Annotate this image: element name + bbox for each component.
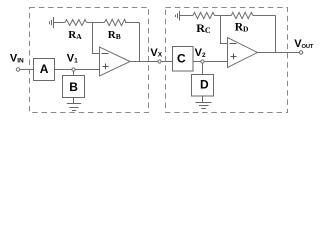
svg-text:VIN: VIN — [10, 53, 24, 65]
svg-text:RD: RD — [235, 21, 249, 33]
block D — [192, 75, 214, 97]
svg-text:RC: RC — [196, 21, 211, 35]
feedback wire down to output of U2 — [275, 16, 277, 53]
terminal VIN — [16, 68, 19, 71]
svg-text:C: C — [177, 52, 186, 66]
wire node X down to inverting input of U1 — [93, 23, 100, 54]
svg-text:RA: RA — [68, 29, 82, 41]
svg-text:B: B — [69, 80, 78, 94]
wire RB to feedback corner — [125, 22, 140, 24]
wire node down to inverting input of U2 — [221, 16, 228, 44]
block B — [63, 76, 85, 98]
terminal VOUT — [299, 51, 302, 54]
output wire U1 to VX — [130, 61, 158, 63]
svg-text:VX: VX — [150, 47, 162, 59]
right dashed subcircuit box — [166, 8, 288, 113]
stub V2 down to block D — [202, 63, 204, 74]
stub V1 down to block B — [73, 71, 75, 75]
wire C to op-amp + input through node V2 — [193, 61, 228, 63]
wire RC to RD through node — [215, 15, 232, 17]
wire ground to RC — [180, 15, 193, 17]
svg-text:V2: V2 — [195, 47, 206, 59]
wire A to op-amp + input through node V1 — [55, 69, 100, 71]
terminal VX — [158, 60, 161, 63]
ground under B — [67, 98, 81, 111]
feedback wire down to output of U1 — [139, 23, 141, 62]
svg-text:RB: RB — [108, 29, 121, 41]
svg-text:A: A — [40, 62, 49, 76]
block C — [173, 47, 194, 72]
op-amp U1 — [100, 47, 131, 76]
wire VX to block C — [161, 61, 172, 63]
resistor RC — [193, 12, 215, 18]
output wire U2 to VOUT — [258, 52, 300, 54]
svg-text:VOUT: VOUT — [294, 38, 314, 50]
wire RD to feedback corner — [253, 15, 276, 17]
left dashed subcircuit box — [30, 8, 149, 113]
svg-text:D: D — [200, 77, 209, 91]
node V2 — [201, 60, 204, 63]
node V1 — [72, 68, 75, 71]
ground (left stage top, facing left) — [50, 17, 54, 28]
block A — [34, 59, 55, 81]
wire RA to RB through node X — [87, 22, 105, 24]
ground under D — [196, 96, 212, 109]
resistor RB — [105, 19, 127, 25]
op-amp U2 — [228, 38, 258, 68]
resistor RD — [231, 12, 253, 18]
svg-text:V1: V1 — [67, 53, 78, 65]
wire ground to RA — [54, 22, 66, 24]
wire VIN to block A — [20, 69, 34, 71]
ground (right stage top, facing left) — [176, 11, 180, 21]
resistor RA — [65, 20, 87, 26]
